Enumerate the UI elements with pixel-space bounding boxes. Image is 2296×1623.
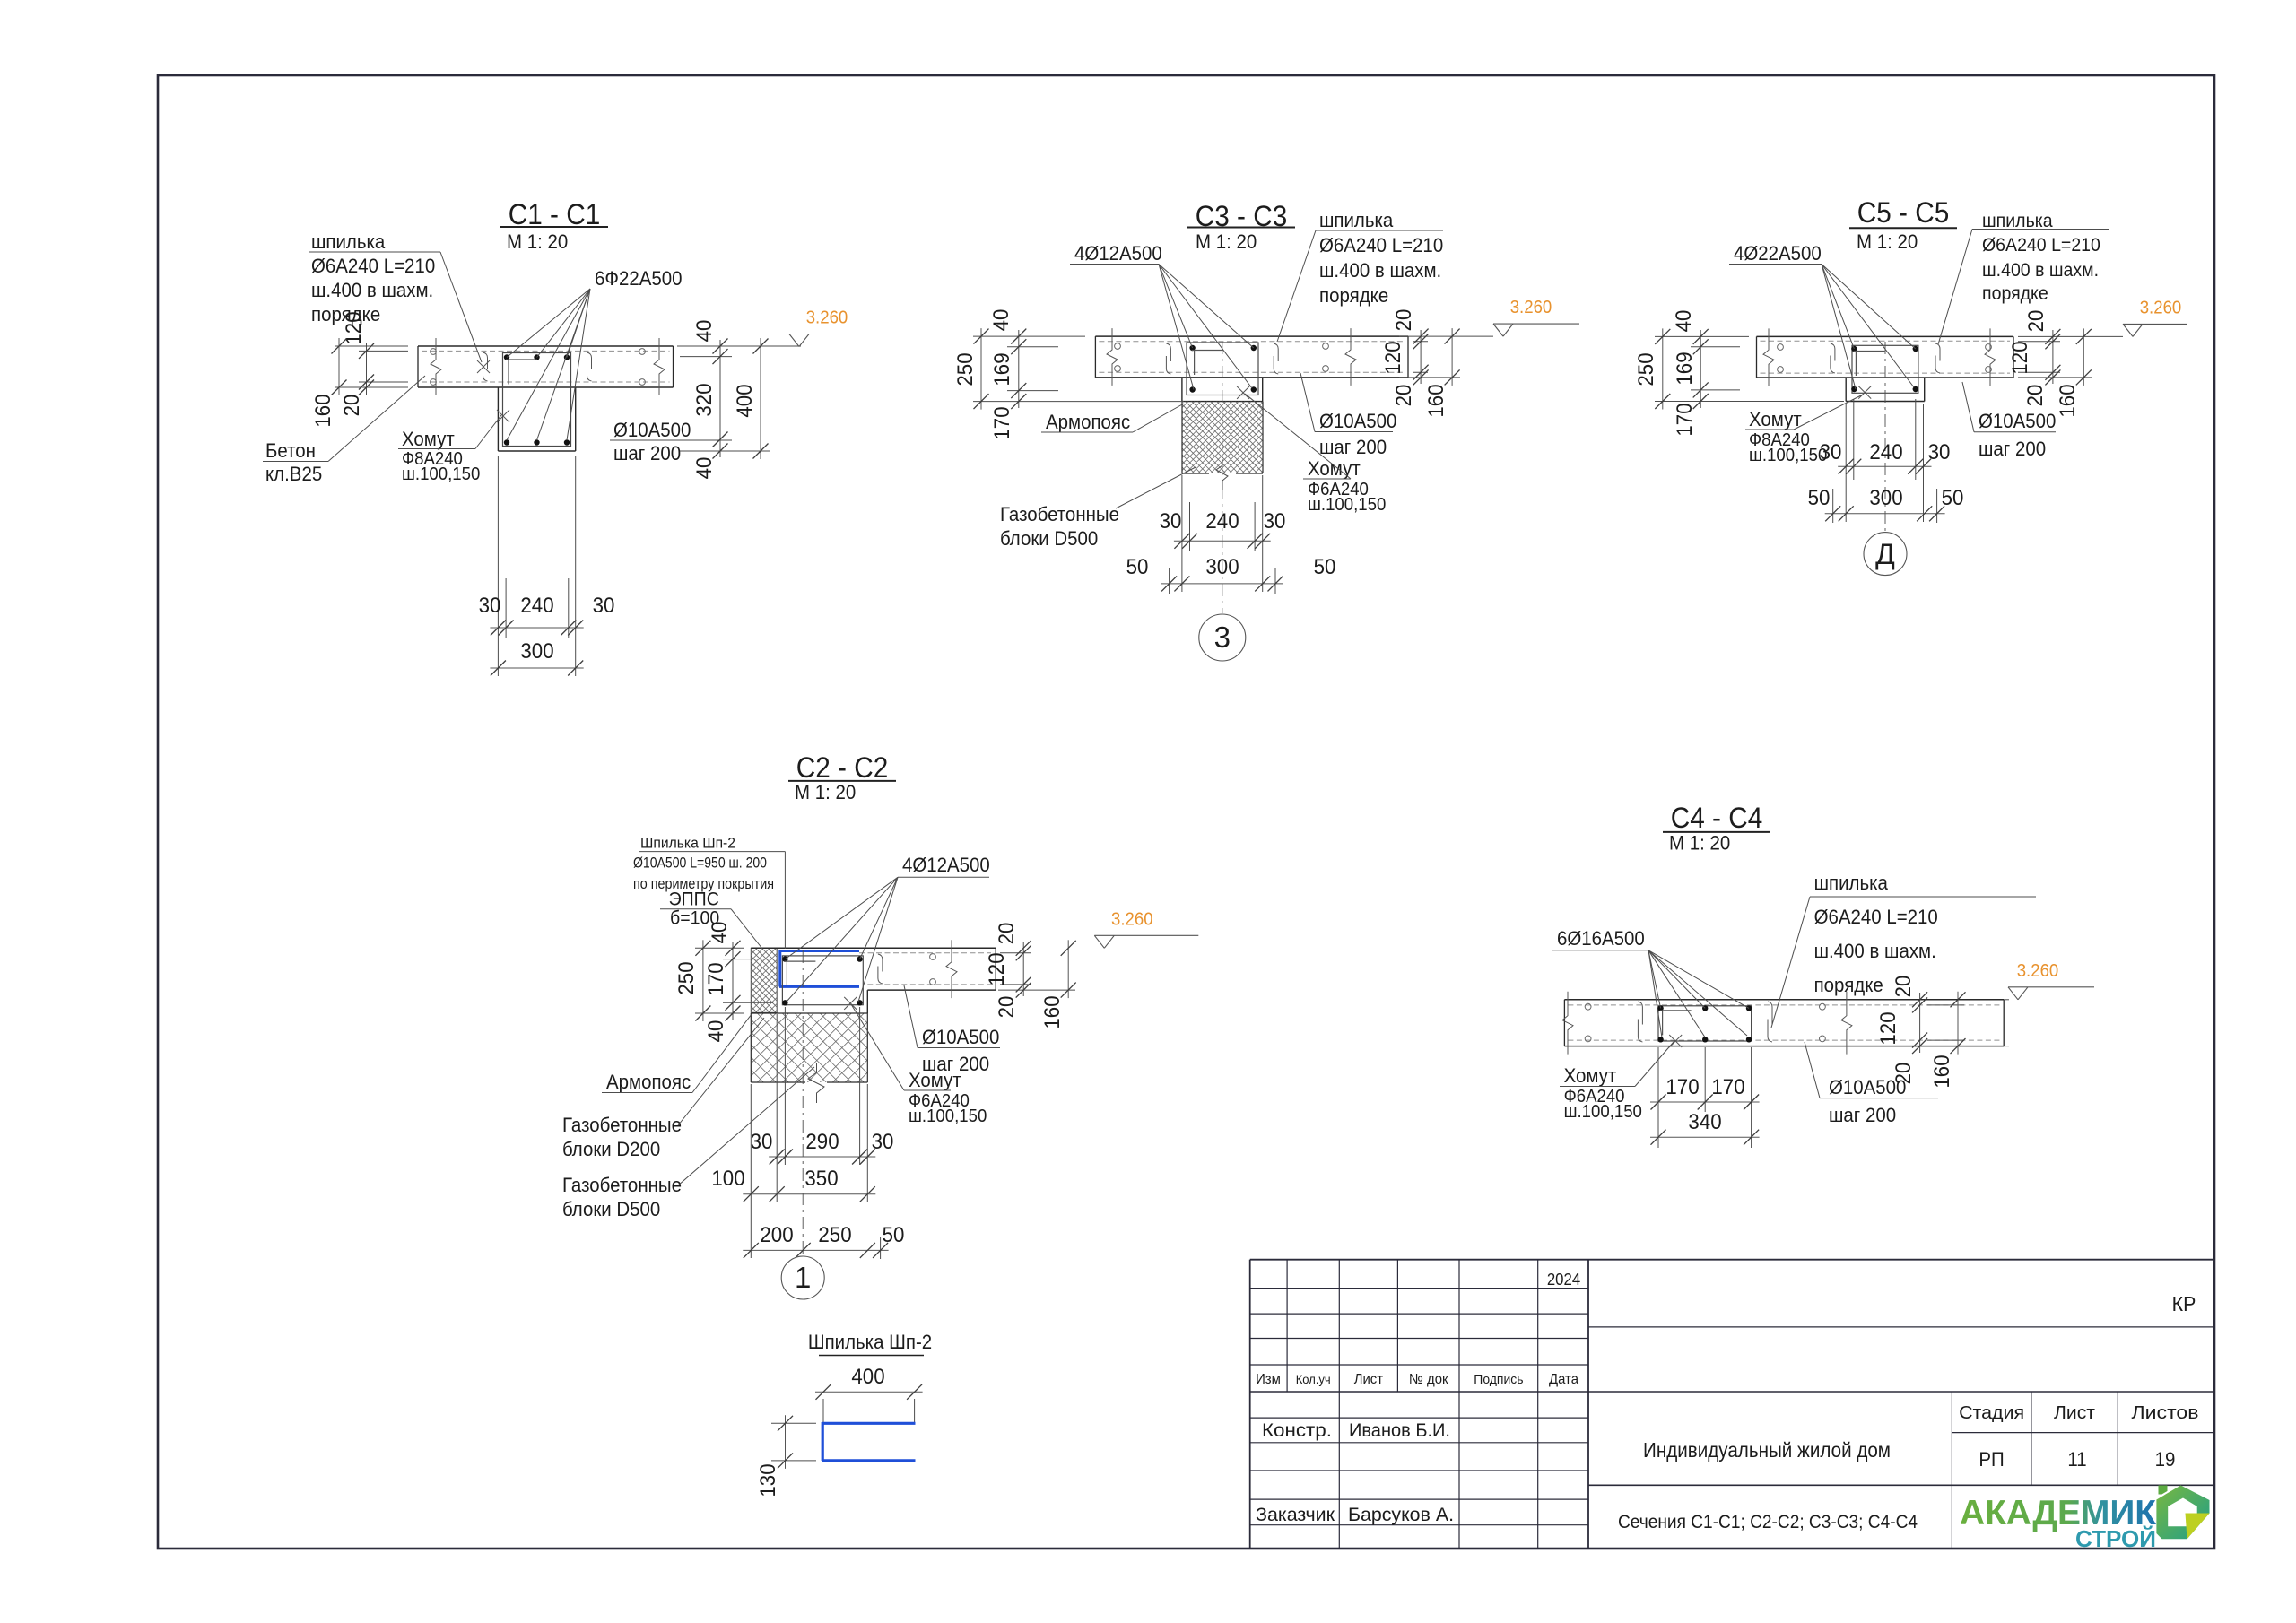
svg-text:Хомут: Хомут [402, 428, 455, 450]
svg-text:30: 30 [593, 594, 615, 618]
svg-text:40: 40 [989, 309, 1013, 332]
svg-text:160: 160 [1930, 1055, 1954, 1088]
svg-text:4Ø12А500: 4Ø12А500 [902, 854, 990, 876]
svg-text:порядке: порядке [1319, 284, 1388, 307]
svg-text:Стадия: Стадия [1959, 1403, 2024, 1423]
svg-text:130: 130 [756, 1463, 780, 1497]
svg-text:3.260: 3.260 [1111, 909, 1153, 929]
svg-text:Газобетонные: Газобетонные [1000, 503, 1119, 525]
svg-text:20: 20 [995, 996, 1019, 1019]
svg-text:350: 350 [804, 1167, 838, 1191]
svg-text:Армопояс: Армопояс [606, 1071, 691, 1093]
svg-text:шаг 200: шаг 200 [1979, 438, 2046, 460]
svg-text:170: 170 [1665, 1075, 1699, 1099]
svg-text:ЭППС: ЭППС [669, 890, 719, 910]
svg-text:Бетон: Бетон [265, 439, 316, 462]
svg-text:300: 300 [1869, 486, 1902, 510]
svg-text:ш.100,150: ш.100,150 [909, 1107, 987, 1126]
svg-text:шпилька: шпилька [1814, 872, 1889, 894]
svg-text:ш.400 в шахм.: ш.400 в шахм. [1319, 259, 1441, 282]
svg-text:30: 30 [479, 594, 501, 618]
svg-text:ш.100,150: ш.100,150 [402, 464, 480, 484]
svg-text:120: 120 [2008, 341, 2032, 374]
svg-text:блоки D500: блоки D500 [1000, 527, 1098, 550]
svg-text:Иванов Б.И.: Иванов Б.И. [1349, 1420, 1450, 1441]
svg-text:20: 20 [995, 923, 1019, 945]
svg-text:30: 30 [1264, 509, 1286, 534]
svg-text:Лист: Лист [2054, 1403, 2095, 1423]
svg-text:30: 30 [1160, 509, 1182, 534]
svg-text:50: 50 [1942, 486, 1964, 510]
svg-text:Ø10А500: Ø10А500 [1319, 410, 1396, 432]
svg-text:РП: РП [1979, 1448, 2004, 1471]
svg-text:Ø10А500: Ø10А500 [613, 419, 691, 441]
svg-text:М 1: 20: М 1: 20 [1669, 832, 1730, 855]
svg-text:400: 400 [733, 384, 757, 417]
svg-text:100: 100 [711, 1167, 744, 1191]
svg-text:Армопояс: Армопояс [1046, 411, 1130, 433]
svg-text:40: 40 [1672, 310, 1696, 333]
svg-text:250: 250 [674, 961, 699, 994]
svg-text:ш.100,150: ш.100,150 [1749, 446, 1827, 465]
svg-text:блоки D200: блоки D200 [562, 1138, 660, 1160]
svg-text:С4 - С4: С4 - С4 [1671, 802, 1763, 834]
svg-text:Хомут: Хомут [1308, 457, 1361, 480]
svg-text:320: 320 [692, 383, 717, 416]
svg-text:6Ф22А500: 6Ф22А500 [595, 267, 683, 290]
svg-text:20: 20 [1392, 385, 1416, 407]
svg-text:3.260: 3.260 [2140, 298, 2182, 317]
svg-text:160: 160 [1424, 384, 1448, 417]
svg-text:30: 30 [872, 1130, 894, 1154]
svg-text:Ø6А240 L=210: Ø6А240 L=210 [1814, 906, 1938, 928]
svg-text:Сечения С1-С1; С2-С2; С3-С3; С: Сечения С1-С1; С2-С2; С3-С3; С4-С4 [1618, 1512, 1918, 1532]
svg-text:20: 20 [340, 395, 364, 417]
svg-text:Газобетонные: Газобетонные [562, 1174, 682, 1196]
svg-text:300: 300 [1205, 555, 1239, 579]
svg-text:№ док: № док [1409, 1372, 1449, 1387]
svg-text:170: 170 [1673, 403, 1697, 436]
svg-text:300: 300 [520, 639, 553, 664]
svg-text:Хомут: Хомут [909, 1069, 961, 1091]
svg-text:С2 - С2: С2 - С2 [796, 751, 889, 784]
svg-text:3: 3 [1214, 621, 1231, 654]
svg-text:1: 1 [795, 1261, 811, 1294]
svg-text:40: 40 [704, 1020, 728, 1043]
svg-text:порядке: порядке [1814, 974, 1883, 996]
svg-text:Листов: Листов [2132, 1403, 2199, 1423]
svg-text:240: 240 [520, 594, 553, 618]
svg-text:Газобетонные: Газобетонные [562, 1114, 682, 1136]
svg-text:20: 20 [1892, 1063, 1916, 1085]
svg-text:М 1: 20: М 1: 20 [507, 230, 568, 253]
svg-text:Кол.уч: Кол.уч [1296, 1372, 1331, 1386]
svg-text:3.260: 3.260 [806, 308, 848, 328]
svg-text:порядке: порядке [1982, 283, 2048, 304]
svg-text:20: 20 [2023, 385, 2048, 407]
svg-text:170: 170 [990, 406, 1014, 439]
svg-text:160: 160 [1040, 995, 1065, 1028]
svg-text:400: 400 [851, 1365, 884, 1389]
svg-text:4Ø12А500: 4Ø12А500 [1074, 242, 1162, 265]
svg-text:40: 40 [692, 457, 717, 480]
svg-text:4Ø22А500: 4Ø22А500 [1734, 242, 1822, 265]
svg-text:40: 40 [708, 922, 732, 944]
svg-text:Шпилька Шп-2: Шпилька Шп-2 [808, 1331, 932, 1353]
svg-text:ш.100,150: ш.100,150 [1564, 1102, 1642, 1122]
svg-text:120: 120 [985, 952, 1009, 985]
svg-text:250: 250 [1634, 352, 1658, 386]
svg-text:М 1: 20: М 1: 20 [1857, 230, 1918, 253]
svg-text:240: 240 [1205, 509, 1239, 534]
svg-text:шаг 200: шаг 200 [613, 442, 681, 464]
svg-text:Шпилька Шп-2: Шпилька Шп-2 [640, 835, 735, 852]
svg-text:2024: 2024 [1547, 1271, 1580, 1289]
svg-text:Хомут: Хомут [1749, 408, 1802, 430]
svg-text:3.260: 3.260 [1510, 298, 1552, 317]
svg-text:30: 30 [751, 1130, 773, 1154]
svg-text:240: 240 [1869, 440, 1902, 464]
svg-text:СТРОЙ: СТРОЙ [2075, 1525, 2156, 1552]
svg-text:Ø10А500: Ø10А500 [1979, 410, 2056, 432]
svg-text:170: 170 [1711, 1075, 1744, 1099]
svg-text:шаг 200: шаг 200 [1319, 436, 1387, 458]
svg-text:М 1: 20: М 1: 20 [1196, 230, 1257, 253]
svg-text:20: 20 [1892, 976, 1916, 998]
svg-text:КР: КР [2172, 1292, 2196, 1315]
svg-text:Хомут: Хомут [1564, 1064, 1617, 1087]
svg-text:С1 - С1: С1 - С1 [509, 198, 601, 230]
svg-text:200: 200 [760, 1223, 793, 1247]
svg-text:шпилька: шпилька [311, 230, 386, 253]
svg-text:40: 40 [692, 320, 717, 343]
svg-text:160: 160 [311, 394, 335, 427]
svg-text:Дата: Дата [1549, 1372, 1578, 1387]
svg-text:ш.400 в шахм.: ш.400 в шахм. [1814, 940, 1936, 962]
svg-text:50: 50 [1808, 486, 1831, 510]
svg-text:120: 120 [1876, 1011, 1900, 1045]
svg-text:Заказчик: Заказчик [1256, 1505, 1335, 1525]
svg-text:ш.100,150: ш.100,150 [1308, 495, 1386, 515]
svg-text:290: 290 [805, 1130, 839, 1154]
svg-text:3.260: 3.260 [2017, 961, 2059, 981]
svg-text:Ø10А500: Ø10А500 [922, 1026, 999, 1048]
svg-text:50: 50 [1314, 555, 1336, 579]
svg-text:19: 19 [2155, 1448, 2176, 1471]
svg-text:50: 50 [1126, 555, 1149, 579]
svg-text:Лист: Лист [1354, 1372, 1384, 1387]
svg-text:Барсуков А.: Барсуков А. [1348, 1505, 1454, 1525]
svg-text:Подпись: Подпись [1474, 1372, 1523, 1387]
svg-text:250: 250 [953, 352, 978, 386]
svg-text:20: 20 [2024, 310, 2048, 333]
svg-text:ш.400 в шахм.: ш.400 в шахм. [1982, 260, 2099, 281]
svg-text:30: 30 [1928, 440, 1951, 464]
svg-text:блоки D500: блоки D500 [562, 1198, 660, 1220]
svg-text:30: 30 [1820, 440, 1842, 464]
svg-text:ш.400 в шахм.: ш.400 в шахм. [311, 279, 433, 301]
svg-text:340: 340 [1688, 1110, 1721, 1134]
svg-text:Д: Д [1875, 538, 1895, 570]
svg-text:170: 170 [704, 962, 728, 995]
svg-text:Ø6А240 L=210: Ø6А240 L=210 [1319, 234, 1443, 256]
svg-text:50: 50 [883, 1223, 905, 1247]
svg-text:Ø6А240 L=210: Ø6А240 L=210 [1982, 235, 2100, 256]
svg-text:Ø10А500 L=950 ш. 200: Ø10А500 L=950 ш. 200 [633, 855, 767, 872]
svg-text:шпилька: шпилька [1319, 209, 1394, 231]
svg-text:Констр.: Констр. [1262, 1420, 1332, 1441]
svg-text:Ø6А240 L=210: Ø6А240 L=210 [311, 255, 435, 277]
svg-text:С5 - С5: С5 - С5 [1857, 196, 1950, 229]
svg-text:160: 160 [2056, 384, 2080, 417]
svg-text:Индивидуальный жилой дом: Индивидуальный жилой дом [1643, 1438, 1891, 1462]
svg-text:М 1: 20: М 1: 20 [795, 781, 856, 803]
svg-text:20: 20 [1392, 309, 1416, 332]
svg-text:шпилька: шпилька [1982, 211, 2053, 231]
svg-text:шаг 200: шаг 200 [1829, 1104, 1896, 1126]
svg-text:169: 169 [1673, 352, 1697, 385]
svg-text:120: 120 [1381, 341, 1405, 374]
svg-text:11: 11 [2067, 1448, 2086, 1471]
svg-text:169: 169 [990, 352, 1014, 386]
svg-text:кл.В25: кл.В25 [265, 463, 322, 485]
svg-text:Изм: Изм [1256, 1372, 1281, 1387]
svg-text:250: 250 [818, 1223, 851, 1247]
svg-text:6Ø16А500: 6Ø16А500 [1557, 927, 1645, 950]
